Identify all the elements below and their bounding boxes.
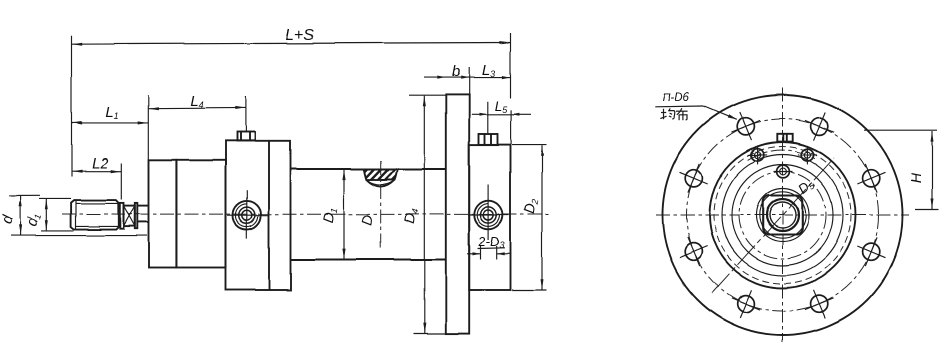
port D crosshair xyxy=(468,184,509,240)
bolt hole 3 xyxy=(731,112,760,140)
hatched port xyxy=(355,168,403,187)
port D centerline xyxy=(380,161,382,250)
rod threaded end xyxy=(71,200,118,230)
leader note n-D6 xyxy=(655,92,737,120)
note jun-bu xyxy=(660,108,687,120)
screw circle D5 xyxy=(739,172,826,259)
gland circle inner xyxy=(759,192,805,238)
port boss C xyxy=(237,132,255,141)
screw hole left xyxy=(748,145,767,164)
front head block xyxy=(226,141,291,290)
dimension 2-D3 xyxy=(467,234,511,260)
flange horizontal centerline xyxy=(656,214,909,216)
flange plate xyxy=(446,94,469,333)
screw circle arc xyxy=(748,150,817,160)
dimension L4 xyxy=(148,93,246,159)
rod nut square xyxy=(763,196,803,235)
bolt hole 2 xyxy=(805,112,834,140)
svg-text:H: H xyxy=(908,172,924,183)
main axis centerline xyxy=(62,213,552,216)
hidden circle 68 xyxy=(714,147,851,284)
dimension L3 xyxy=(469,62,510,79)
gland block xyxy=(149,160,177,268)
rod stub xyxy=(137,206,149,222)
svg-text:L2: L2 xyxy=(92,155,109,172)
washer left xyxy=(120,203,124,229)
flange outer circle xyxy=(663,95,903,335)
rear head block xyxy=(176,160,225,268)
bolt hole 5 xyxy=(680,237,708,266)
lock nut xyxy=(124,206,135,227)
bolt hole 8 xyxy=(857,237,885,266)
port C circles xyxy=(233,201,262,230)
screw hole right xyxy=(798,145,817,164)
port boss D xyxy=(479,134,498,144)
dimension H xyxy=(864,130,939,209)
washer right xyxy=(135,203,138,229)
dimension d1 xyxy=(24,198,74,231)
head block circle xyxy=(710,142,856,288)
flange vertical centerline xyxy=(782,88,784,342)
port boss front xyxy=(777,134,792,142)
svg-text:Π-D6: Π-D6 xyxy=(663,92,690,104)
port C crosshair xyxy=(227,191,268,239)
face circle 50 xyxy=(732,165,833,266)
rod circle xyxy=(767,199,799,231)
dimension L5 xyxy=(472,99,531,145)
dimension L+S xyxy=(72,27,511,177)
svg-text:b: b xyxy=(452,63,460,80)
dimension D2 xyxy=(512,145,547,290)
port D circles xyxy=(474,201,503,230)
svg-text:L+S: L+S xyxy=(285,27,314,44)
rod head block xyxy=(469,145,510,290)
dimension d xyxy=(0,195,147,235)
bolt hole 4 xyxy=(680,164,708,193)
face circle 60 xyxy=(722,155,843,276)
dimension L2 xyxy=(72,155,122,200)
bolt hole 6 xyxy=(731,290,760,318)
dimension L1 xyxy=(72,104,149,125)
dimension D4 xyxy=(402,95,446,333)
bolt hole 7 xyxy=(805,290,834,318)
diagonal centerline D5 xyxy=(712,158,834,293)
cylinder tube xyxy=(291,169,446,260)
bolt hole 1 xyxy=(857,164,885,193)
bolt circle xyxy=(687,119,879,311)
rod thread circle xyxy=(770,202,796,228)
dimension b xyxy=(424,63,469,98)
screw hole top xyxy=(774,165,793,178)
gland circle outer xyxy=(756,189,809,242)
dimension D1 xyxy=(321,170,346,260)
